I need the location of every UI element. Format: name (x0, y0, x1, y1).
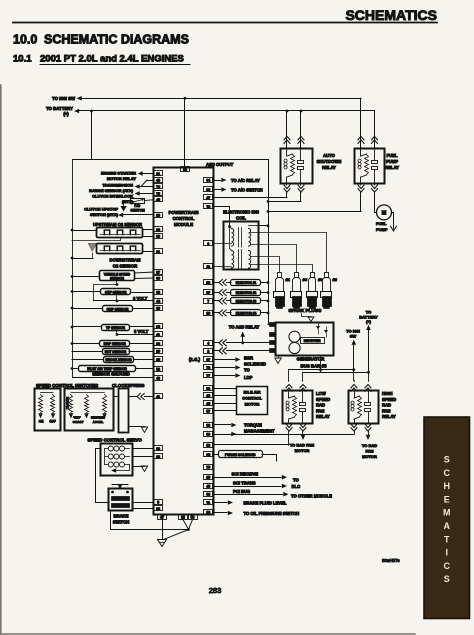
svg-text:POWERTRAIN: POWERTRAIN (168, 210, 198, 215)
svg-text:(+): (+) (366, 319, 372, 324)
svg-text:#2: #2 (333, 277, 338, 282)
svg-text:#1: #1 (286, 277, 291, 282)
svg-text:H: H (444, 481, 451, 491)
svg-text:12: 12 (206, 511, 210, 515)
svg-text:25: 25 (206, 476, 210, 480)
svg-text:TO: TO (293, 478, 299, 483)
svg-text:TO OIL PRESSURE SWITCH: TO OIL PRESSURE SWITCH (244, 511, 300, 516)
svg-text:COAST: COAST (73, 420, 84, 424)
svg-text:ACCEL: ACCEL (93, 420, 104, 424)
svg-text:A: A (444, 521, 451, 531)
svg-text:RECTIFIER: RECTIFIER (304, 339, 322, 343)
svg-text:SENSOR GROUND: SENSOR GROUND (92, 371, 129, 376)
svg-text:BRAKE: BRAKE (114, 514, 129, 519)
svg-text:MAP SENSOR: MAP SENSOR (104, 342, 127, 346)
svg-text:2001 PT 2.0L and 2.4L ENGINES: 2001 PT 2.0L and 2.4L ENGINES (40, 54, 184, 65)
svg-text:SENSOR: SENSOR (110, 277, 125, 281)
svg-text:38: 38 (156, 235, 160, 239)
svg-text:TO A/C SWITCH: TO A/C SWITCH (231, 187, 263, 192)
svg-text:UPSTREAM O2 SENSOR: UPSTREAM O2 SENSOR (93, 222, 142, 227)
svg-text:52: 52 (156, 368, 160, 372)
svg-text:LOW: LOW (316, 391, 326, 396)
svg-text:CLUTCH UPSTOP: CLUTCH UPSTOP (84, 206, 118, 211)
svg-text:RAD: RAD (316, 403, 325, 408)
svg-text:MANAGEMENT: MANAGEMENT (244, 429, 275, 434)
svg-text:5: 5 (157, 501, 159, 505)
svg-text:DOWNSTREAM: DOWNSTREAM (110, 258, 141, 263)
svg-text:SPEED: SPEED (382, 397, 396, 402)
svg-text:INJECTOR #1: INJECTOR #1 (236, 281, 257, 285)
svg-text:ON: ON (39, 420, 44, 424)
svg-text:PUMP: PUMP (386, 159, 398, 164)
svg-text:FAN: FAN (366, 449, 374, 454)
svg-text:36: 36 (156, 342, 160, 346)
svg-text:S: S (444, 574, 450, 584)
svg-text:C: C (444, 561, 451, 571)
svg-text:SCI RECEIVE: SCI RECEIVE (232, 472, 259, 477)
svg-text:SW: SW (350, 334, 357, 339)
svg-text:BUS BAR #5: BUS BAR #5 (300, 364, 327, 369)
svg-text:IDLE AIR: IDLE AIR (244, 390, 261, 395)
svg-text:71: 71 (206, 501, 210, 505)
svg-text:SPEED CONTROL SWITCHES: SPEED CONTROL SWITCHES (36, 383, 98, 388)
svg-text:58: 58 (206, 387, 210, 391)
svg-text:INJECTOR #2: INJECTOR #2 (236, 291, 257, 295)
svg-text:MOTOR: MOTOR (362, 454, 377, 459)
svg-text:SHUTDOWN: SHUTDOWN (317, 159, 342, 164)
svg-text:CONTROL: CONTROL (242, 396, 262, 401)
svg-text:MOTOR: MOTOR (295, 448, 310, 453)
svg-text:VACUUM: VACUUM (66, 396, 70, 409)
svg-text:COIL: COIL (236, 215, 246, 220)
svg-text:50: 50 (191, 516, 195, 520)
svg-text:O2 SENSOR: O2 SENSOR (113, 263, 137, 268)
svg-text:PURGE SOLENOID: PURGE SOLENOID (225, 453, 256, 457)
svg-text:TO: TO (244, 367, 250, 372)
svg-text:CLOCKSPRING: CLOCKSPRING (112, 383, 145, 388)
svg-text:E: E (444, 494, 450, 504)
svg-text:5 VOLT: 5 VOLT (134, 329, 149, 334)
svg-text:SWITCH (MTX): SWITCH (MTX) (90, 212, 119, 217)
svg-text:SWITCH: SWITCH (113, 519, 130, 524)
svg-text:27: 27 (156, 271, 160, 275)
svg-text:RAD: RAD (382, 403, 391, 408)
svg-text:CKP SENSOR: CKP SENSOR (105, 290, 127, 294)
svg-text:RESUME/: RESUME/ (91, 416, 105, 420)
svg-text:66: 66 (156, 277, 160, 281)
svg-text:77: 77 (206, 374, 210, 378)
svg-text:LDP: LDP (244, 375, 253, 380)
svg-text:25: 25 (156, 358, 160, 362)
svg-text:BRAKE FLUID LEVEL: BRAKE FLUID LEVEL (244, 500, 287, 505)
svg-text:43: 43 (156, 377, 160, 381)
svg-text:(+): (+) (63, 112, 69, 117)
svg-text:CONTROL: CONTROL (173, 216, 195, 221)
svg-text:TO RAD FAN: TO RAD FAN (290, 443, 314, 448)
svg-text:32: 32 (156, 291, 160, 295)
svg-text:OFF: OFF (49, 420, 55, 424)
svg-text:DLC: DLC (292, 484, 301, 489)
svg-text:75: 75 (206, 466, 210, 470)
svg-text:65: 65 (206, 453, 210, 457)
svg-text:283: 283 (209, 586, 222, 595)
svg-text:SCHEMATICS: SCHEMATICS (345, 7, 437, 23)
svg-text:18: 18 (206, 312, 210, 316)
svg-text:ENGINE STARTER: ENGINE STARTER (101, 171, 136, 176)
svg-text:63: 63 (206, 424, 210, 428)
svg-text:4: 4 (207, 341, 209, 345)
svg-text:(2.4L): (2.4L) (189, 357, 201, 362)
svg-text:TO ASD RELAY: TO ASD RELAY (229, 325, 260, 330)
svg-text:10.0: 10.0 (13, 33, 37, 47)
svg-text:21: 21 (156, 250, 160, 254)
svg-text:20: 20 (183, 168, 187, 172)
svg-text:FAN: FAN (316, 408, 324, 413)
svg-text:RELAY: RELAY (385, 165, 399, 170)
svg-text:80aH57c: 80aH57c (382, 558, 400, 563)
svg-text:68: 68 (206, 493, 210, 497)
svg-text:M: M (443, 508, 451, 518)
svg-text:32: 32 (156, 228, 160, 232)
svg-text:EGR: EGR (244, 355, 253, 360)
svg-text:72: 72 (206, 366, 210, 370)
svg-text:7: 7 (207, 300, 209, 304)
svg-text:TORQUE: TORQUE (244, 423, 262, 428)
svg-text:47: 47 (160, 516, 164, 520)
svg-text:SPEED CONTROL SERVO: SPEED CONTROL SERVO (88, 438, 143, 443)
svg-text:2: 2 (207, 349, 209, 353)
svg-text:10.1: 10.1 (13, 54, 32, 65)
svg-text:33: 33 (206, 444, 210, 448)
svg-text:26: 26 (156, 350, 160, 354)
svg-text:44: 44 (156, 300, 160, 304)
svg-text:49: 49 (206, 394, 210, 398)
svg-text:62: 62 (156, 507, 160, 511)
svg-text:TO A/C RELAY: TO A/C RELAY (231, 178, 260, 183)
svg-text:45: 45 (206, 402, 210, 406)
svg-text:41: 41 (156, 333, 160, 337)
svg-text:SCI TRANS: SCI TRANS (233, 480, 256, 485)
svg-text:FUEL: FUEL (376, 221, 387, 226)
svg-text:41: 41 (156, 395, 160, 399)
svg-text:20: 20 (156, 455, 160, 459)
svg-text:74: 74 (206, 205, 210, 209)
svg-text:RELAY: RELAY (322, 165, 336, 170)
svg-text:57: 57 (206, 291, 210, 295)
svg-text:36: 36 (206, 188, 210, 192)
svg-text:10: 10 (156, 447, 160, 451)
svg-text:31: 31 (156, 172, 160, 176)
svg-text:I: I (446, 548, 449, 558)
svg-text:HIGH: HIGH (382, 391, 392, 396)
svg-text:ECT SENSOR: ECT SENSOR (105, 350, 127, 354)
svg-text:'SET': 'SET' (73, 416, 81, 420)
svg-text:CLUTCH INTERLOCK: CLUTCH INTERLOCK (92, 194, 133, 199)
svg-text:67: 67 (206, 358, 210, 362)
svg-text:76: 76 (156, 185, 160, 189)
svg-text:SWITCH: SWITCH (131, 208, 146, 212)
svg-text:KNOCK SENSOR: KNOCK SENSOR (105, 358, 132, 362)
svg-text:RANGE SENSOR (ATX): RANGE SENSOR (ATX) (89, 188, 134, 193)
svg-text:#4: #4 (303, 277, 308, 282)
svg-text:23: 23 (156, 214, 160, 218)
svg-text:MODULE: MODULE (174, 222, 193, 227)
svg-text:PCI BUS: PCI BUS (233, 489, 250, 494)
svg-text:RELAY: RELAY (382, 414, 396, 419)
svg-text:11: 11 (207, 265, 211, 269)
svg-text:SPEED: SPEED (316, 397, 330, 402)
svg-text:TRANSMISSION: TRANSMISSION (102, 182, 133, 187)
svg-text:57: 57 (206, 410, 210, 414)
svg-text:45: 45 (206, 485, 210, 489)
svg-text:SCHEMATIC DIAGRAMS: SCHEMATIC DIAGRAMS (44, 33, 189, 47)
svg-text:ASD OUTPUT: ASD OUTPUT (206, 162, 234, 167)
svg-text:C: C (444, 468, 451, 478)
svg-text:TO BATTERY: TO BATTERY (46, 106, 73, 111)
svg-text:9: 9 (207, 242, 209, 246)
svg-text:TP SENSOR: TP SENSOR (106, 326, 126, 330)
svg-text:TO OTHER MODULE: TO OTHER MODULE (291, 494, 332, 499)
svg-text:53: 53 (206, 281, 210, 285)
svg-text:P/S: P/S (134, 204, 140, 208)
svg-text:T: T (444, 534, 450, 544)
svg-text:MOTOR RELAY: MOTOR RELAY (107, 176, 136, 181)
svg-text:FAN: FAN (382, 408, 390, 413)
svg-text:MOTOR: MOTOR (245, 402, 260, 407)
svg-text:ELECTRONIC IGN: ELECTRONIC IGN (223, 210, 259, 215)
svg-text:69: 69 (206, 433, 210, 437)
svg-text:INJECTOR #3: INJECTOR #3 (236, 299, 257, 303)
svg-text:PUMP: PUMP (376, 227, 388, 232)
svg-text:INJECTOR #4: INJECTOR #4 (236, 311, 257, 315)
svg-text:45: 45 (156, 198, 160, 202)
svg-text:33: 33 (156, 307, 160, 311)
svg-text:35: 35 (156, 325, 160, 329)
svg-text:FUEL: FUEL (387, 153, 398, 158)
svg-text:75: 75 (156, 192, 160, 196)
svg-text:47: 47 (206, 196, 210, 200)
svg-text:SPARK PLUGS: SPARK PLUGS (289, 308, 322, 313)
svg-text:RELAY: RELAY (316, 414, 330, 419)
svg-text:S: S (444, 455, 450, 465)
svg-text:48: 48 (156, 179, 160, 183)
svg-text:TO RAD: TO RAD (362, 443, 377, 448)
svg-text:SOLENOID: SOLENOID (244, 361, 266, 366)
svg-text:AUTO: AUTO (323, 153, 336, 158)
svg-text:8 VOLT: 8 VOLT (133, 296, 148, 301)
svg-text:CMP SENSOR: CMP SENSOR (106, 307, 129, 311)
svg-text:TO IGN SW: TO IGN SW (52, 96, 76, 101)
svg-text:64: 64 (206, 179, 210, 183)
svg-text:M: M (382, 210, 387, 216)
